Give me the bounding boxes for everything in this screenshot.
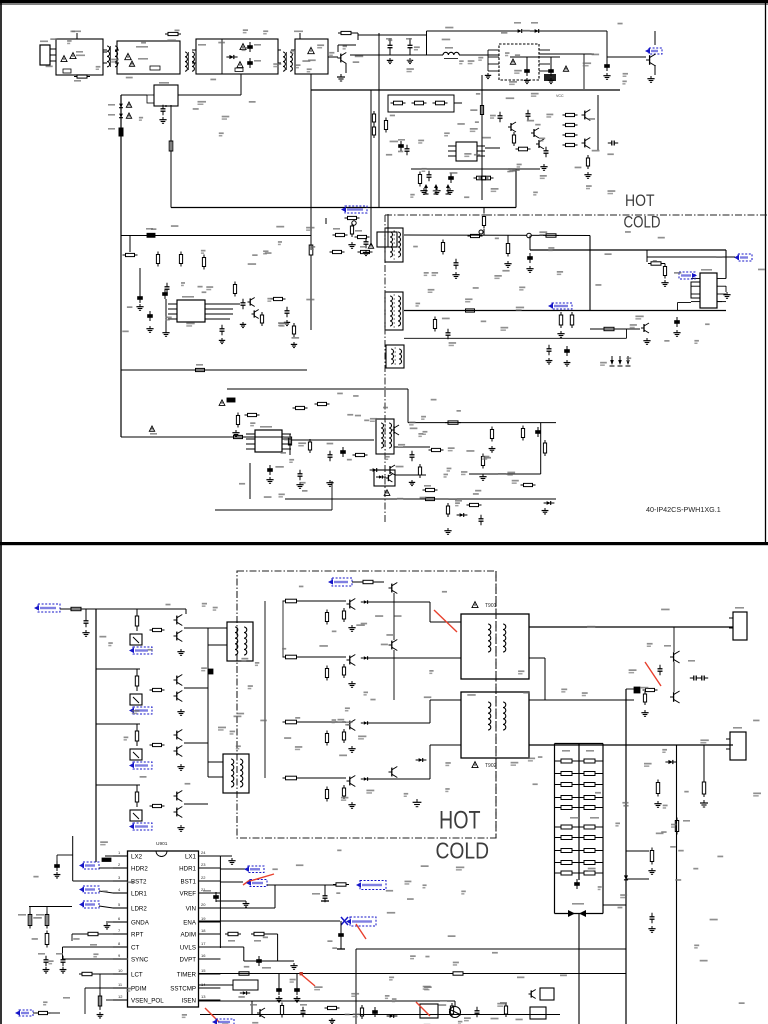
svg-text:11: 11 [118,982,123,987]
svg-text:UVLS: UVLS [180,944,196,951]
svg-text:LX2: LX2 [131,853,143,860]
svg-text:15: 15 [201,968,206,973]
svg-text:DVPT: DVPT [179,956,196,963]
svg-text:BST1: BST1 [181,878,197,885]
svg-text:CT: CT [131,944,139,951]
svg-text:3: 3 [118,875,121,880]
svg-text:24: 24 [201,850,206,855]
svg-text:4: 4 [118,887,121,892]
svg-text:SYNC: SYNC [131,956,149,963]
svg-text:20: 20 [201,902,206,907]
svg-text:ADIM: ADIM [181,931,196,938]
svg-text:17: 17 [201,941,206,946]
svg-text:LX1: LX1 [185,853,197,860]
svg-text:HOT: HOT [439,807,481,835]
svg-text:10: 10 [118,968,123,973]
svg-text:7: 7 [118,928,121,933]
svg-text:19: 19 [201,916,206,921]
svg-text:22: 22 [201,875,206,880]
svg-text:ISEN: ISEN [182,997,196,1004]
svg-text:SSTCMP: SSTCMP [170,985,196,992]
svg-text:LDR2: LDR2 [131,905,147,912]
svg-text:VCC: VCC [556,94,564,98]
svg-text:T901: T901 [485,603,497,609]
svg-text:HDR1: HDR1 [179,865,196,872]
svg-text:GNDA: GNDA [131,919,150,926]
svg-text:12: 12 [118,994,123,999]
svg-text:RPT: RPT [131,931,144,938]
svg-text:HOT: HOT [625,191,655,210]
svg-text:LCT: LCT [131,971,143,978]
svg-text:6: 6 [118,916,121,921]
svg-text:TIMER: TIMER [177,971,197,978]
svg-text:VREF: VREF [179,890,196,897]
svg-text:VSEN_POL: VSEN_POL [131,997,164,1004]
svg-text:2: 2 [118,862,121,867]
svg-text:COLD: COLD [624,214,661,232]
svg-text:PDIM: PDIM [131,985,146,992]
svg-text:1: 1 [118,850,121,855]
svg-text:U901: U901 [156,841,168,847]
svg-text:5: 5 [118,902,121,907]
svg-text:VIN: VIN [186,905,196,912]
svg-text:8: 8 [118,941,121,946]
svg-text:COLD: COLD [436,838,490,864]
svg-text:13: 13 [201,994,206,999]
svg-text:23: 23 [201,862,206,867]
svg-text:16: 16 [201,953,206,958]
svg-text:9: 9 [118,953,121,958]
svg-text:18: 18 [201,928,206,933]
svg-text:ENA: ENA [183,919,197,926]
svg-text:HDR2: HDR2 [131,865,148,872]
svg-text:LDR1: LDR1 [131,890,147,897]
svg-text:40-IP42CS-PWH1XG.1: 40-IP42CS-PWH1XG.1 [646,505,721,514]
svg-text:T902: T902 [485,763,497,769]
